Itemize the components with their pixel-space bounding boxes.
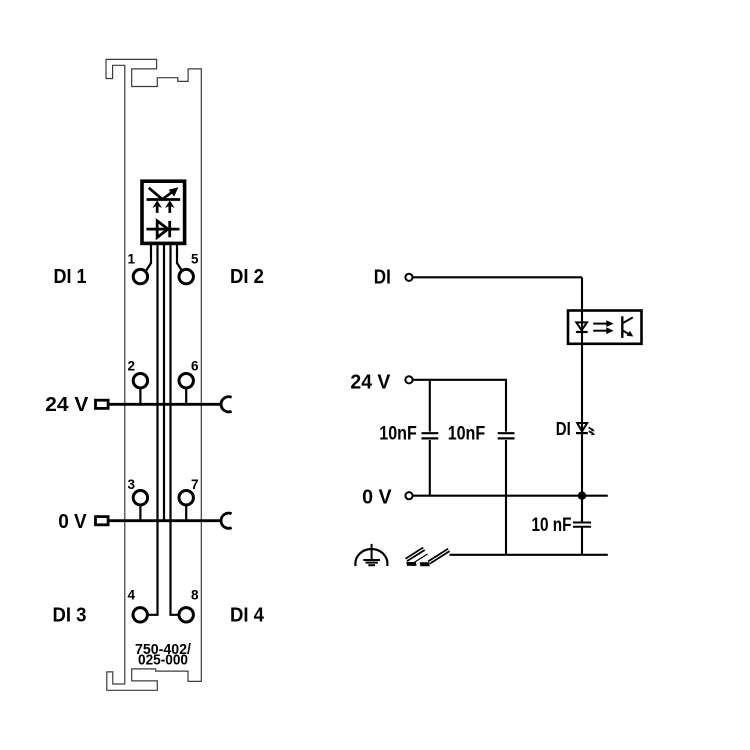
svg-text:0 V: 0 V xyxy=(362,487,392,509)
svg-text:10nF: 10nF xyxy=(448,423,486,444)
svg-text:5: 5 xyxy=(191,252,199,267)
svg-text:DI 3: DI 3 xyxy=(53,605,87,627)
svg-text:025-000: 025-000 xyxy=(138,653,188,669)
svg-text:24 V: 24 V xyxy=(45,394,89,416)
svg-text:6: 6 xyxy=(191,359,199,374)
svg-text:2: 2 xyxy=(127,359,135,374)
svg-text:4: 4 xyxy=(127,588,135,603)
svg-text:10nF: 10nF xyxy=(379,423,417,444)
svg-text:DI 1: DI 1 xyxy=(54,266,87,288)
svg-text:0 V: 0 V xyxy=(58,511,87,533)
svg-text:DI 2: DI 2 xyxy=(230,266,264,288)
svg-text:7: 7 xyxy=(191,477,199,492)
svg-text:DI 4: DI 4 xyxy=(230,605,265,627)
svg-text:1: 1 xyxy=(127,252,135,267)
svg-text:8: 8 xyxy=(191,588,199,603)
svg-text:DI: DI xyxy=(374,266,391,288)
svg-text:10 nF: 10 nF xyxy=(532,515,572,536)
svg-text:24 V: 24 V xyxy=(350,372,391,394)
svg-text:DI: DI xyxy=(556,419,571,439)
svg-text:3: 3 xyxy=(127,477,135,492)
